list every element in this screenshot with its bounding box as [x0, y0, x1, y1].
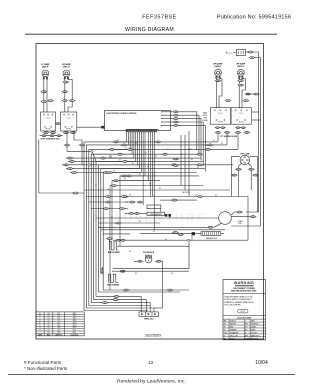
svg-text:UNIT 6": UNIT 6"	[214, 66, 221, 68]
svg-text:WARNING: WARNING	[234, 281, 254, 285]
svg-text:SF-2: SF-2	[73, 330, 77, 332]
svg-text:Rendered by LeadVenture, Inc.: Rendered by LeadVenture, Inc.	[117, 379, 186, 385]
svg-text:WIRE: WIRE	[38, 334, 42, 336]
svg-text:3173: 3173	[73, 327, 77, 329]
svg-text:NOTED FIRST, STRIPE NEXT.: NOTED FIRST, STRIPE NEXT.	[224, 299, 252, 301]
svg-text:BK: BK	[107, 189, 109, 191]
svg-text:L1 L2: L1 L2	[46, 117, 50, 119]
svg-text:L1 L2: L1 L2	[67, 117, 71, 119]
svg-text:150: 150	[57, 327, 60, 329]
svg-text:14: 14	[48, 318, 50, 320]
svg-text:TO L2: TO L2	[226, 53, 232, 55]
svg-text:1015: 1015	[73, 313, 77, 315]
svg-text:L1 L2: L1 L2	[218, 113, 222, 115]
svg-text:BK: BK	[221, 143, 223, 145]
svg-text:1015: 1015	[73, 320, 77, 322]
svg-text:BK: BK	[145, 152, 147, 154]
svg-text:BK: BK	[113, 171, 115, 173]
svg-text:OVN SENSOR: OVN SENSOR	[143, 252, 155, 254]
svg-text:BK: BK	[155, 156, 157, 158]
svg-text:BK/W: BK/W	[188, 149, 192, 151]
svg-text:L1 L2: L1 L2	[239, 113, 243, 115]
svg-text:W-BK: W-BK	[245, 338, 251, 340]
svg-text:13: 13	[148, 360, 153, 365]
svg-text:BK: BK	[129, 251, 131, 253]
svg-text:BK: BK	[129, 195, 131, 197]
svg-text:BKE ELMENT: BKE ELMENT	[108, 252, 121, 254]
svg-text:BK: BK	[159, 188, 161, 190]
svg-text:GY/Y: GY/Y	[241, 311, 246, 313]
svg-text:TIME: TIME	[203, 118, 207, 120]
svg-text:150: 150	[57, 325, 60, 327]
svg-text:BK: BK	[213, 140, 215, 142]
svg-text:105: 105	[57, 320, 60, 322]
svg-text:TRACER WIRE: WIRE COLOR: TRACER WIRE: WIRE COLOR	[224, 295, 253, 298]
svg-text:BK: BK	[119, 159, 121, 161]
svg-text:* Non-Illustrated Parts: * Non-Illustrated Parts	[24, 366, 67, 371]
svg-text:200: 200	[57, 332, 60, 334]
svg-text:SF-2: SF-2	[73, 332, 77, 334]
svg-text:BK: BK	[195, 195, 197, 197]
svg-text:BK: BK	[124, 179, 126, 181]
svg-text:BK: BK	[206, 145, 208, 147]
svg-text:ELECTRONIC OVEN CONTROL: ELECTRONIC OVEN CONTROL	[107, 113, 138, 115]
svg-text:UNIT 8": UNIT 8"	[42, 67, 49, 69]
svg-text:BK: BK	[149, 184, 151, 186]
svg-text:16: 16	[48, 330, 50, 332]
svg-text:BROIL: BROIL	[203, 115, 208, 117]
svg-text:1015: 1015	[73, 315, 77, 317]
svg-text:FEF357BSE: FEF357BSE	[142, 14, 176, 20]
svg-text:# Functional Parts: # Functional Parts	[24, 360, 62, 365]
svg-text:Publication No: 5995419156: Publication No: 5995419156	[217, 14, 291, 20]
svg-text:LOCK MOTOR: LOCK MOTOR	[150, 214, 162, 216]
svg-text:TEMP(°C): TEMP(°C)	[55, 334, 63, 336]
svg-text:UL STYLE: UL STYLE	[71, 334, 78, 336]
svg-text:H1 H2: H1 H2	[218, 122, 223, 124]
svg-text:EXAMPLE: GREEN WIRE WITH: EXAMPLE: GREEN WIRE WITH	[224, 301, 254, 304]
svg-text:BK: BK	[181, 154, 183, 156]
svg-text:BK: BK	[167, 149, 169, 151]
svg-text:BK: BK	[132, 163, 134, 165]
svg-text:BK: BK	[135, 273, 137, 275]
svg-text:WH-BLK: WH-BLK	[251, 338, 259, 340]
svg-text:200: 200	[57, 330, 60, 332]
svg-text:150: 150	[57, 322, 60, 324]
svg-text:BK: BK	[153, 231, 155, 233]
svg-text:BK: BK	[147, 167, 149, 169]
svg-text:3173: 3173	[73, 325, 77, 327]
svg-text:UNIT 8": UNIT 8"	[237, 66, 244, 68]
svg-text:14: 14	[48, 332, 50, 334]
svg-text:1015: 1015	[73, 318, 77, 320]
svg-text:H1 H2: H1 H2	[46, 128, 51, 130]
svg-text:RT SURFACE SW.: RT SURFACE SW.	[220, 135, 237, 138]
svg-text:105: 105	[57, 313, 60, 315]
svg-text:BRL ELMENT: BRL ELMENT	[107, 285, 120, 287]
svg-text:BK: BK	[117, 140, 119, 142]
svg-text:316255309: 316255309	[145, 334, 161, 338]
svg-text:3173: 3173	[73, 322, 77, 324]
svg-text:BK: BK	[135, 143, 137, 145]
svg-text:UNIT 6": UNIT 6"	[63, 67, 70, 69]
svg-text:105: 105	[57, 318, 60, 320]
svg-text:B: B	[39, 315, 40, 317]
svg-text:16: 16	[48, 325, 50, 327]
svg-text:105: 105	[57, 315, 60, 317]
svg-text:18: 18	[48, 322, 50, 324]
svg-text:BK: BK	[139, 174, 141, 176]
svg-text:BK: BK	[125, 147, 127, 149]
svg-text:10/04: 10/04	[255, 360, 268, 366]
svg-text:BEFORE SERVICING UNIT.: BEFORE SERVICING UNIT.	[231, 291, 257, 293]
svg-text:BLUE: BLUE	[230, 338, 236, 340]
svg-text:BK: BK	[191, 159, 193, 161]
svg-text:TRMNL BLK: TRMNL BLK	[144, 319, 155, 321]
svg-text:14: 14	[48, 327, 50, 329]
svg-text:H1 H2: H1 H2	[66, 128, 71, 130]
svg-text:LEFT SURFACE SW.: LEFT SURFACE SW.	[40, 137, 60, 140]
svg-text:18: 18	[48, 313, 50, 315]
svg-text:16: 16	[48, 315, 50, 317]
svg-text:WIRING DIAGRAM: WIRING DIAGRAM	[125, 27, 174, 33]
svg-text:BK: BK	[171, 273, 173, 275]
svg-text:YELLOW STRIPE.: YELLOW STRIPE.	[224, 305, 241, 307]
svg-text:H1 H2: H1 H2	[239, 122, 244, 124]
svg-text:BL: BL	[224, 338, 226, 340]
svg-text:BK: BK	[95, 185, 97, 187]
svg-text:WARMER ELE: WARMER ELE	[206, 237, 218, 240]
svg-text:BK: BK	[215, 195, 217, 197]
svg-text:12: 12	[48, 320, 50, 322]
svg-text:F: F	[39, 325, 40, 327]
svg-text:BK: BK	[197, 167, 199, 169]
